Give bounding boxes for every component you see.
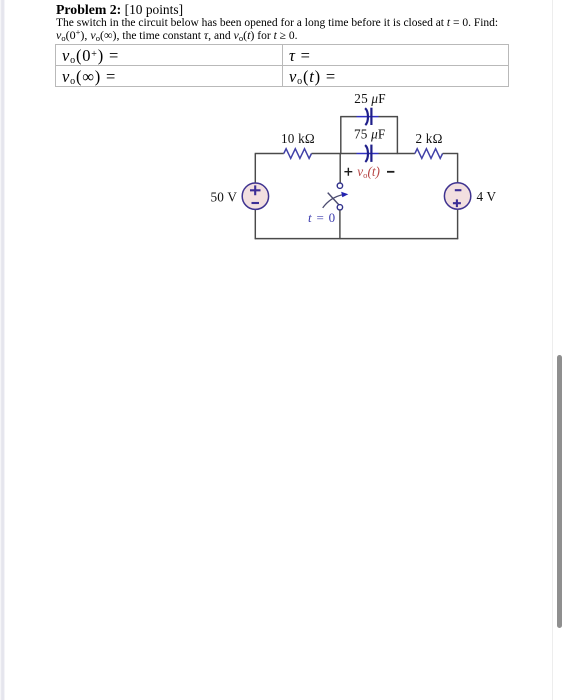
capacitor 25uF lead (blue) (357, 116, 379, 118)
switch: wire from node down (339, 154, 341, 184)
4V minus sign (455, 189, 462, 191)
wire: right vertical top segment (457, 154, 459, 183)
svg-text:25 μF: 25 μF (354, 91, 385, 106)
wire: middle horizontal, 2k to right corner (443, 153, 459, 155)
svg-text:t = 0: t = 0 (308, 210, 336, 225)
node label: plus sign of vo(t) (344, 168, 352, 176)
switch closing arrow arc (323, 195, 343, 208)
wire: middle horizontal, left of 10k resistor (255, 153, 284, 155)
50V minus sign (252, 202, 260, 204)
svg-text:vo(t): vo(t) (357, 164, 380, 180)
svg-text:4 V: 4 V (477, 189, 497, 204)
voltage source 50V circle (242, 183, 268, 209)
left page-edge stripe (0, 0, 5, 700)
capacitor 25uF curved plate (365, 108, 368, 125)
wire: left vertical bottom segment (254, 210, 256, 239)
wire: top horizontal right segment (379, 116, 399, 118)
wire: middle horizontal, 10k to cap lead (312, 153, 357, 155)
svg-text:2 kΩ: 2 kΩ (416, 131, 443, 146)
wire: middle horizontal, cap to 2k (379, 153, 415, 155)
wire: left vertical top segment (254, 154, 256, 183)
capacitor 75uF straight plate (370, 145, 372, 162)
capacitor 25uF straight plate (370, 108, 372, 125)
scrollbar thumb (557, 355, 562, 628)
node label: minus sign of vo(t) (387, 171, 394, 173)
switch: wire to bottom rail (339, 210, 341, 239)
switch bottom terminal circle (337, 205, 342, 210)
top branch rectangle: left vertical (340, 117, 342, 155)
svg-text:50 V: 50 V (211, 189, 238, 204)
50V plus sign (250, 185, 261, 195)
switch blade (328, 193, 339, 205)
4V plus sign (453, 199, 461, 207)
svg-text:75 μF: 75 μF (354, 127, 385, 142)
capacitor 75uF curved plate (365, 145, 368, 162)
scrollbar track line (552, 0, 553, 700)
capacitor 75uF lead (blue) (357, 153, 379, 155)
svg-text:10 kΩ: 10 kΩ (281, 131, 315, 146)
voltage source 4V circle (444, 183, 470, 209)
switch top terminal circle (337, 183, 342, 188)
top branch rectangle: right vertical (396, 117, 398, 155)
wire: top horizontal left segment (340, 116, 356, 118)
resistor 10 kOhm zigzag (284, 149, 312, 159)
resistor 2 kOhm zigzag (415, 149, 443, 159)
switch arrowhead (341, 192, 348, 198)
wire: bottom horizontal (255, 238, 459, 240)
wire: right vertical bottom segment (457, 210, 459, 240)
